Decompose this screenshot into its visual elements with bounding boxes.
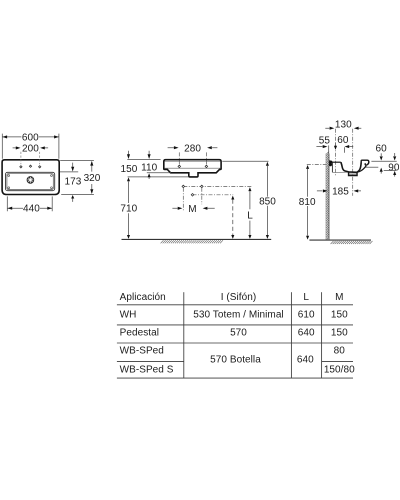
dash-dot line H2 xyxy=(193,194,234,196)
svg-text:173: 173 xyxy=(64,177,81,188)
dim 440 line xyxy=(7,207,52,209)
basin face inner lines xyxy=(165,162,221,169)
dim 320 arrows xyxy=(90,161,93,194)
dim 173 extension line xyxy=(60,171,78,173)
bowl corner circles xyxy=(8,175,53,189)
ext line top left (A) xyxy=(127,158,160,160)
svg-text:WB-SPed S: WB-SPed S xyxy=(120,364,174,375)
drain flange lines xyxy=(349,173,356,176)
svg-text:I (Sifón): I (Sifón) xyxy=(221,292,257,303)
svg-text:570 Botella: 570 Botella xyxy=(210,355,261,366)
svg-text:L: L xyxy=(303,292,309,303)
dim M arrows xyxy=(172,207,214,209)
dim 440 extension lines xyxy=(7,196,52,211)
dim 320 extension lines xyxy=(60,160,94,194)
dim 110 bottom arrow xyxy=(148,173,151,177)
basin front profile xyxy=(164,160,221,177)
vertical dash M right xyxy=(201,188,203,205)
inner bowl outer rect xyxy=(6,172,55,190)
svg-text:150: 150 xyxy=(120,164,137,175)
basin trap xyxy=(349,172,357,176)
svg-text:60: 60 xyxy=(337,135,349,146)
svg-text:610: 610 xyxy=(298,309,315,320)
svg-text:150: 150 xyxy=(331,309,348,320)
wall face extension tick xyxy=(328,145,330,153)
svg-text:810: 810 xyxy=(299,197,316,208)
dim 440 arrows xyxy=(8,207,53,210)
ext line 850 top xyxy=(222,160,268,162)
svg-text:M: M xyxy=(335,292,343,303)
dim 810 top dash-dot line xyxy=(307,163,326,165)
svg-text:150/80: 150/80 xyxy=(324,364,355,375)
svg-text:60: 60 xyxy=(375,144,387,155)
dim 280 arrows xyxy=(168,147,218,149)
dim 173 arrows xyxy=(72,163,74,202)
shared down arrow on V1 xyxy=(335,143,337,146)
ground hatch side xyxy=(331,241,373,244)
dim 600 line xyxy=(2,136,59,138)
dim 320 line xyxy=(91,162,93,192)
basin back shelf line xyxy=(332,171,348,173)
svg-text:530 Totem / Minimal: 530 Totem / Minimal xyxy=(193,309,283,320)
TABLE GROUP xyxy=(117,292,355,378)
svg-text:185: 185 xyxy=(332,186,349,197)
centerline V2 xyxy=(352,129,354,196)
ext line R3 xyxy=(384,169,396,171)
svg-text:320: 320 xyxy=(84,173,101,184)
SIDE VIEW GROUP xyxy=(299,119,400,244)
dim 60 right column xyxy=(380,153,382,156)
tap hole middle xyxy=(29,165,31,167)
ground line side xyxy=(309,239,371,241)
dim 55 arrow left xyxy=(316,146,322,148)
table bottom line xyxy=(117,377,353,379)
vertical dash M left xyxy=(182,188,184,211)
svg-text:150: 150 xyxy=(331,327,348,338)
svg-text:710: 710 xyxy=(120,204,137,215)
table vertical line col1 xyxy=(183,292,185,378)
dim 150 top arrow xyxy=(128,151,130,155)
dim I (sifon) dashed line xyxy=(231,196,234,239)
svg-text:WB-SPed: WB-SPed xyxy=(120,345,164,356)
ext line R1 xyxy=(371,160,396,162)
wall boundaries xyxy=(325,154,327,241)
fixing diamond H1 right xyxy=(201,185,204,188)
dim 600 arrows xyxy=(2,135,58,138)
ext line R2 xyxy=(366,166,379,168)
svg-text:640: 640 xyxy=(297,355,314,366)
dim 710 line with arrows xyxy=(127,177,130,239)
wall bracket xyxy=(329,160,333,166)
table vertical line col2 xyxy=(290,292,292,378)
dash-dot line H1 xyxy=(183,185,251,187)
svg-text:Pedestal: Pedestal xyxy=(120,327,159,338)
ground line front xyxy=(122,238,272,240)
svg-text:90: 90 xyxy=(388,162,400,173)
wall hatch xyxy=(326,152,329,241)
dim 200 arrows xyxy=(13,147,49,149)
svg-text:80: 80 xyxy=(334,345,346,356)
svg-text:850: 850 xyxy=(259,197,276,208)
dim 850 line xyxy=(266,162,269,239)
svg-text:130: 130 xyxy=(335,119,352,130)
inner bowl inner rect xyxy=(7,174,53,190)
svg-text:570: 570 xyxy=(230,327,247,338)
tap hole right xyxy=(39,166,41,168)
tap hole left xyxy=(20,166,22,168)
svg-text:WH: WH xyxy=(120,309,137,320)
svg-text:110: 110 xyxy=(141,162,158,173)
dim 130 arrows xyxy=(325,127,361,129)
dim 185 arrows xyxy=(317,190,361,192)
svg-text:Aplicación: Aplicación xyxy=(120,292,166,303)
basin underside curve xyxy=(357,166,366,172)
fixing diamond H1 left xyxy=(182,185,185,188)
table vertical line col3 xyxy=(321,292,323,378)
basin bowl section xyxy=(341,162,361,172)
ext line body bottom (B) xyxy=(147,172,171,174)
table horizontal line row3 partial xyxy=(117,360,353,362)
FRONT VIEW GROUP xyxy=(120,143,276,243)
dim 600 extension lines xyxy=(2,134,59,159)
svg-text:440: 440 xyxy=(23,204,40,215)
centerline V1 xyxy=(335,129,337,176)
dim 110 top arrow xyxy=(148,151,150,155)
basin front rim hook xyxy=(361,160,369,165)
drain symbol xyxy=(27,177,34,184)
face fixing hole right xyxy=(205,165,208,168)
dim 200 extension dashes xyxy=(21,152,40,164)
ext tick x344.6 xyxy=(344,147,346,152)
dim L line xyxy=(248,187,251,239)
table horizontal line under header xyxy=(117,304,353,306)
fixing diamond H2 xyxy=(191,194,194,197)
table horizontal line row1 xyxy=(117,324,353,326)
svg-text:600: 600 xyxy=(22,133,39,144)
table horizontal line row2 xyxy=(117,342,353,344)
basin outer outline (plan) xyxy=(2,160,59,195)
centerline dash left xyxy=(178,152,180,164)
dim 810 line xyxy=(306,165,309,240)
centerline dash right xyxy=(205,152,207,164)
svg-text:200: 200 xyxy=(22,144,39,155)
svg-text:55: 55 xyxy=(319,135,331,146)
dim 90 column xyxy=(394,153,396,156)
basin back wall line xyxy=(331,162,333,172)
svg-text:M: M xyxy=(188,204,196,215)
basin deck line xyxy=(332,161,340,163)
svg-text:280: 280 xyxy=(184,143,201,154)
dim 60 arrow right xyxy=(345,145,350,148)
face fixing hole left xyxy=(178,165,181,168)
svg-text:640: 640 xyxy=(298,327,315,338)
svg-text:L: L xyxy=(247,210,253,221)
PLAN VIEW GROUP xyxy=(2,133,101,215)
ext line trap bottom (C) xyxy=(128,176,189,178)
ground hatch front xyxy=(161,240,223,243)
